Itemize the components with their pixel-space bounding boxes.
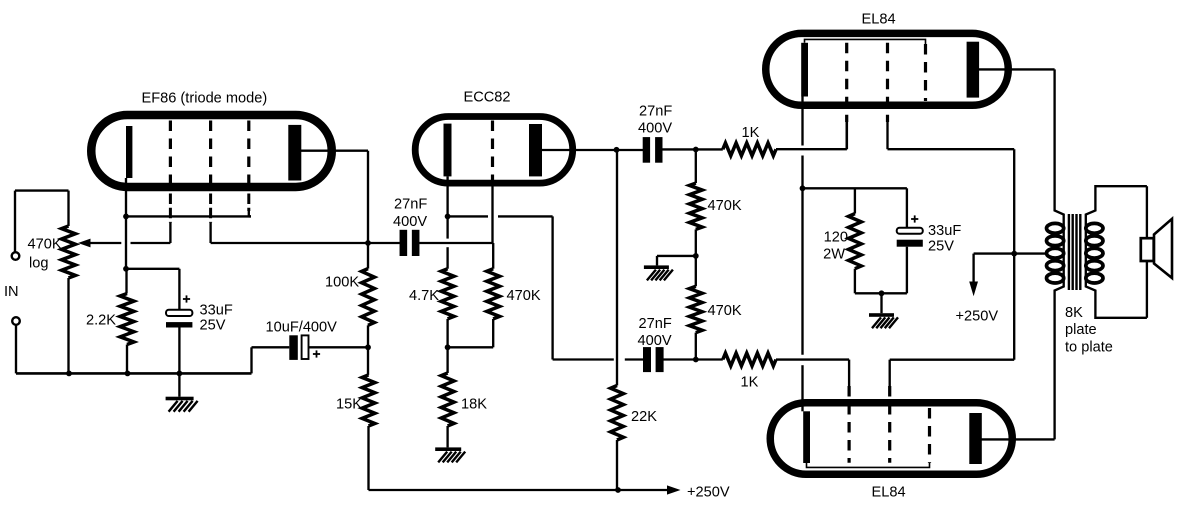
- resistor 22K: [611, 386, 624, 441]
- pot wiper arrow: [78, 239, 121, 248]
- node junction: [123, 214, 129, 220]
- node junction: [800, 185, 806, 191]
- label 400V: [638, 333, 672, 349]
- node junction: [614, 147, 620, 153]
- EL84 top plate bar: [967, 42, 980, 98]
- EL84 bottom g3 dashed: [928, 408, 931, 463]
- wire: [695, 149, 697, 256]
- ground rail wire: [16, 347, 289, 373]
- svg-text:to plate: to plate: [1065, 340, 1113, 356]
- ECC82 cathode lead wire: [446, 176, 448, 268]
- EF86 grid g1 dashed: [169, 121, 172, 223]
- node junction: [125, 371, 131, 377]
- label +250V: [687, 485, 730, 501]
- svg-text:27nF: 27nF: [639, 104, 672, 120]
- label 22K: [631, 409, 657, 425]
- resistor 18K: [441, 373, 454, 426]
- node junction: [615, 487, 621, 493]
- svg-text:18K: 18K: [461, 397, 487, 413]
- wire: [178, 328, 180, 397]
- label 470K: [708, 198, 742, 214]
- wire: [1146, 186, 1148, 318]
- ECC82 cathode link wire: [448, 215, 553, 217]
- ground: [869, 313, 898, 328]
- wire: [367, 243, 369, 269]
- EL84 bottom plate wire: [982, 438, 1055, 440]
- label 15K: [336, 397, 362, 413]
- svg-text:EL84: EL84: [872, 485, 906, 501]
- wire: [67, 278, 69, 373]
- ground: [644, 265, 673, 280]
- resistor 4.7K: [441, 269, 454, 319]
- wire: [448, 243, 494, 347]
- label 25V: [200, 317, 226, 333]
- transformer secondary wire: [1086, 186, 1147, 318]
- polarity + mark: [183, 295, 190, 302]
- svg-text:log: log: [29, 256, 48, 272]
- svg-text:470K: 470K: [28, 237, 62, 253]
- EF86 g3 lead wire: [249, 208, 251, 216]
- label 2W: [823, 246, 845, 262]
- transformer primary winding: [1047, 223, 1064, 283]
- ECC82 grid dashed: [491, 121, 494, 186]
- label 120: [824, 229, 848, 245]
- EL84 top plate wire: [979, 68, 1055, 70]
- EL84 top g3-cathode link: [805, 39, 926, 44]
- resistor 100K: [362, 269, 375, 326]
- EL84 top g2 lead wire: [886, 122, 888, 149]
- label 100K: [325, 275, 359, 291]
- wire: [854, 188, 856, 293]
- node junction: [693, 147, 699, 153]
- label 27nF: [639, 104, 672, 120]
- svg-text:33uF: 33uF: [200, 302, 233, 318]
- svg-text:400V: 400V: [638, 333, 672, 349]
- EL84 top g3 dashed: [924, 44, 927, 101]
- svg-text:1K: 1K: [742, 125, 760, 141]
- label plate: [1065, 322, 1097, 338]
- wire: [695, 256, 697, 360]
- label to plate: [1065, 340, 1113, 356]
- label 18K: [461, 397, 487, 413]
- svg-text:27nF: 27nF: [394, 197, 427, 213]
- wire: [880, 293, 882, 313]
- wire: [855, 292, 907, 294]
- svg-text:IN: IN: [4, 284, 19, 300]
- label EL84 bottom: [872, 485, 906, 501]
- label 33uF: [200, 302, 233, 318]
- label +250V: [956, 309, 999, 325]
- ECC82 plate bar: [529, 124, 542, 176]
- svg-text:10uF/400V: 10uF/400V: [266, 319, 338, 335]
- EF86 grid g2 dashed: [209, 121, 212, 223]
- EF86 cathode lead wire: [125, 178, 127, 269]
- tube EL84 bottom envelope: [770, 403, 1012, 475]
- svg-text:470K: 470K: [708, 303, 742, 319]
- EL84 bottom g3-cathode link: [807, 463, 930, 468]
- EL84 bottom g2 dashed: [888, 386, 891, 463]
- wire +250V rail: [369, 489, 668, 491]
- wire: [368, 242, 400, 244]
- tube ECC82 envelope: [415, 117, 573, 184]
- node IN label: [4, 284, 19, 300]
- ECC82 cathode bar: [444, 124, 452, 177]
- node junction: [365, 240, 371, 246]
- label 2.2K: [86, 313, 116, 329]
- node junction: [445, 214, 451, 220]
- label 4.7K: [409, 288, 439, 304]
- resistor 2.2K: [120, 294, 134, 345]
- EL84 top g1 dashed: [845, 43, 848, 122]
- svg-text:15K: 15K: [336, 397, 362, 413]
- label 1K: [742, 125, 760, 141]
- ground: [166, 397, 198, 412]
- transformer core: [1069, 214, 1080, 290]
- resistor 15K: [362, 375, 375, 426]
- label 33uF: [928, 223, 961, 239]
- label 8K: [1065, 305, 1083, 321]
- EL84 top cathode lead wire: [801, 97, 803, 189]
- svg-text:25V: 25V: [200, 317, 226, 333]
- svg-text:33uF: 33uF: [928, 223, 961, 239]
- svg-text:4.7K: 4.7K: [409, 288, 439, 304]
- svg-text:27nF: 27nF: [639, 316, 672, 332]
- ECC82 plate wire: [542, 149, 645, 151]
- EF86 g1 lead wire: [169, 223, 171, 243]
- node junction: [123, 266, 129, 272]
- svg-text:400V: 400V: [393, 214, 427, 230]
- wire: [446, 347, 448, 447]
- tube EL84 top envelope: [766, 33, 1009, 105]
- polarity + mark: [313, 350, 320, 357]
- node junction: [693, 253, 699, 259]
- capacitor 27nF 400V upper: [643, 137, 663, 163]
- EL84 bottom plate bar: [969, 413, 982, 464]
- label 470K: [28, 237, 62, 253]
- wire: [15, 191, 69, 253]
- EL84 top cathode bar: [801, 43, 808, 97]
- label EF86 (triode mode): [142, 90, 268, 106]
- svg-text:EL84: EL84: [862, 12, 896, 28]
- svg-text:8K: 8K: [1065, 305, 1083, 321]
- svg-text:ECC82: ECC82: [464, 90, 511, 106]
- EF86 cathode bar: [126, 126, 132, 178]
- label 470K: [708, 303, 742, 319]
- node junction: [177, 371, 183, 377]
- wire: [367, 325, 369, 347]
- svg-text:22K: 22K: [631, 409, 657, 425]
- svg-text:+250V: +250V: [687, 485, 730, 501]
- wire: [616, 440, 618, 490]
- wire to lower coupling: [553, 216, 614, 359]
- input jack top terminal: [12, 252, 20, 260]
- label 470K: [507, 288, 541, 304]
- node junction: [66, 371, 72, 377]
- svg-text:25V: 25V: [928, 238, 954, 254]
- EL84 top g2 dashed: [886, 43, 889, 122]
- EF86 g2 lead wire: [211, 223, 368, 243]
- svg-text:1K: 1K: [741, 375, 759, 391]
- wire: [125, 269, 128, 374]
- wire: [126, 269, 179, 310]
- capacitor 33uF 25V electrolytic: [897, 228, 923, 247]
- svg-text:120: 120: [824, 229, 848, 245]
- EL84 bottom g1 dashed: [847, 386, 850, 463]
- wire screen rail: [888, 149, 1015, 386]
- EF86 plate bar: [288, 125, 301, 181]
- wire: [776, 122, 847, 149]
- wire: [367, 347, 370, 490]
- label ECC82: [464, 90, 511, 106]
- transformer primary wire: [1055, 69, 1064, 439]
- node junction: [365, 344, 371, 350]
- svg-text:2W: 2W: [823, 246, 845, 262]
- label 25V: [928, 238, 954, 254]
- label EL84 top: [862, 12, 896, 28]
- capacitor 10uF/400V electrolytic: [289, 335, 308, 360]
- label 400V: [638, 121, 672, 137]
- potentiometer 470K log: [62, 226, 76, 278]
- wire: [131, 242, 171, 244]
- label 27nF: [394, 197, 427, 213]
- wire +250V tap: [974, 252, 1047, 254]
- EL84 bottom cathode bar: [803, 411, 810, 463]
- wire: [662, 148, 723, 150]
- wire: [803, 187, 907, 189]
- resistor 470K lower: [689, 286, 702, 332]
- polarity + mark: [911, 215, 918, 222]
- ECC82 grid lead wire: [491, 184, 493, 243]
- label 27nF: [639, 316, 672, 332]
- wire: [625, 358, 723, 360]
- EF86 plate wire: [301, 151, 368, 243]
- resistor 1K lower: [723, 353, 776, 366]
- transformer secondary winding: [1086, 223, 1103, 283]
- EL84 bottom cathode lead wire: [801, 188, 803, 411]
- svg-text:2.2K: 2.2K: [86, 313, 116, 329]
- resistor 1K upper: [723, 143, 776, 156]
- EL84 top g1 lead wire: [846, 122, 848, 149]
- resistor 470K grid: [487, 269, 500, 319]
- resistor 120 2W: [849, 214, 862, 269]
- wire: [446, 319, 448, 347]
- capacitor 27nF 400V: [400, 230, 420, 256]
- svg-text:100K: 100K: [325, 275, 359, 291]
- capacitor 33uF 25V electrolytic: [166, 310, 192, 328]
- svg-text:400V: 400V: [638, 121, 672, 137]
- arrow +250V down: [969, 254, 978, 297]
- resistor 470K upper: [689, 183, 702, 229]
- EF86 g3-cathode link wire: [126, 215, 251, 217]
- wire: [776, 360, 849, 386]
- capacitor 27nF 400V lower: [643, 347, 664, 372]
- wire: [906, 188, 908, 293]
- wire ECC82 plate to 22K: [616, 150, 618, 386]
- label 400V: [393, 214, 427, 230]
- wire: [309, 346, 369, 348]
- node junction: [1011, 251, 1017, 257]
- wire: [419, 242, 492, 244]
- svg-text:+250V: +250V: [956, 309, 999, 325]
- arrow +250V: [667, 485, 681, 494]
- node junction: [879, 290, 885, 296]
- node junction: [693, 357, 699, 363]
- wire: [15, 324, 17, 373]
- svg-text:EF86 (triode mode): EF86 (triode mode): [142, 90, 268, 106]
- svg-text:470K: 470K: [708, 198, 742, 214]
- label 1K: [741, 375, 759, 391]
- wire ground stub: [657, 256, 696, 266]
- input jack bottom terminal: [12, 317, 20, 325]
- svg-text:470K: 470K: [507, 288, 541, 304]
- speaker: [1141, 219, 1172, 278]
- node junction: [445, 344, 451, 350]
- tube EF86 envelope: [91, 115, 332, 187]
- svg-text:plate: plate: [1065, 322, 1097, 338]
- EF86 grid g3 dashed: [247, 121, 250, 212]
- label 10uF/400V: [266, 319, 338, 335]
- ground: [435, 447, 465, 462]
- label log: [29, 256, 48, 272]
